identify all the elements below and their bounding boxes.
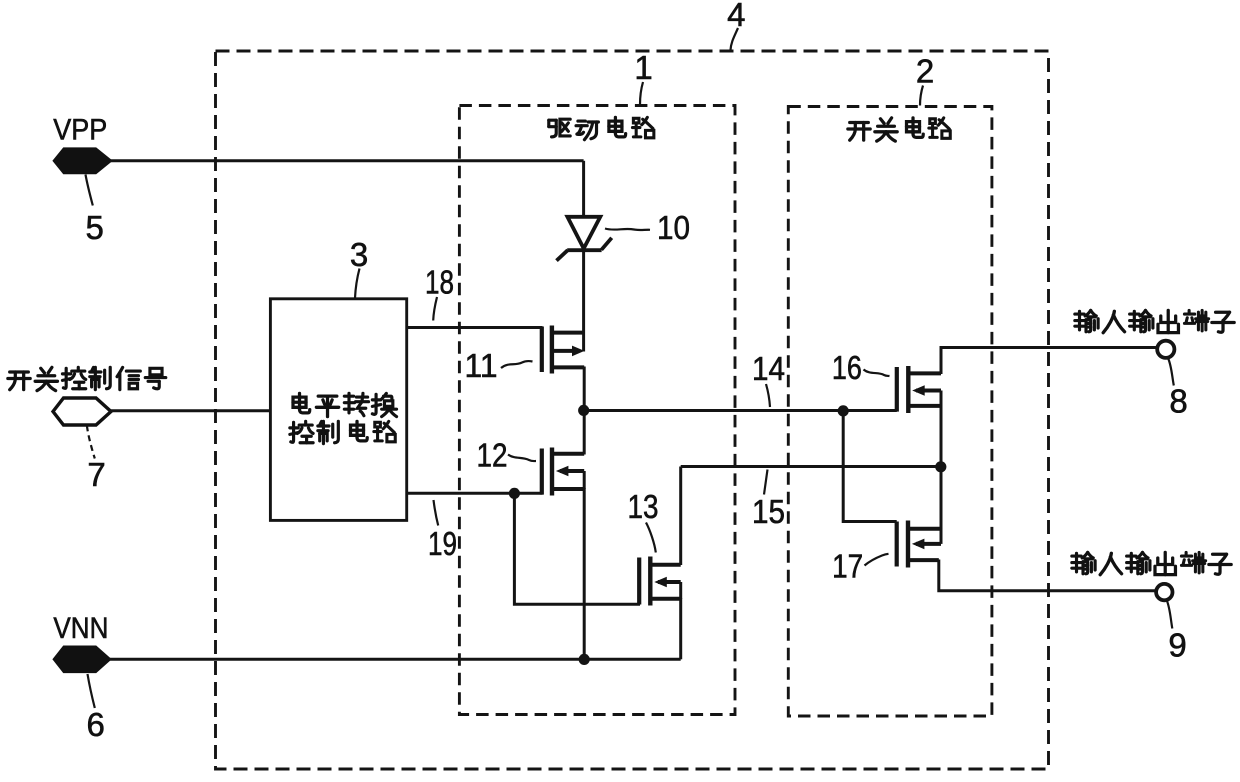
transistor Q13 [639,557,681,606]
transistor Q12 [542,448,584,496]
leader 16 [864,370,890,377]
svg-text:VNN: VNN [53,612,108,645]
box3 text line1: dian ping zhuan huan [293,393,397,416]
svg-text:10: 10 [657,209,690,246]
leader 4 [731,28,739,50]
leader 19 [434,500,439,526]
transistor Q16 [897,366,941,413]
leader 12 [508,455,536,462]
svg-text:7: 7 [87,456,105,493]
title block2: kai guan dian lu [848,118,950,141]
svg-text:19: 19 [428,525,457,562]
leader 15 [764,470,768,495]
box3 text line2: kong zhi dian lu [290,421,395,443]
svg-text:3: 3 [350,236,368,273]
svg-text:8: 8 [1169,383,1187,420]
label terminal 8: shu ru shu chu duan zi [1075,310,1234,332]
svg-text:2: 2 [916,52,934,89]
label terminal 9: shu ru shu chu duan zi [1072,552,1231,574]
wire T17 drain up to wire 15 [940,467,943,530]
box U3 level conversion control circuit [270,299,406,521]
leader 17 [865,554,889,566]
wire T16 source down to wire 15 [940,406,943,467]
terminal pad 7 control signal (open hexagon) [53,398,111,425]
node A junction dot [578,405,589,416]
leader 2 [920,86,923,106]
wire 14 branch down to T17 gate [843,411,897,522]
label VNN [53,612,108,645]
wire zener cathode down to T11 [582,250,585,352]
terminal pad VPP (filled hexagon) [53,148,112,174]
svg-text:17: 17 [832,548,863,585]
svg-text:1: 1 [634,49,652,86]
svg-text:15: 15 [752,493,785,530]
wire VPP rail [110,159,584,162]
svg-text:14: 14 [752,350,785,387]
zener diode D10 [557,217,612,261]
wire T11 source to node A [583,367,586,411]
junction dot VNN [579,654,590,665]
leader 13 [646,523,656,553]
wire 15 T13 drain to T16/T17 [681,465,941,468]
wire control signal to box 3 [109,409,270,412]
wire T12 source to VNN [583,488,586,659]
terminal 9 circle [1156,584,1172,600]
leader lines [86,28,1174,708]
transistor Q11 [542,326,585,374]
svg-text:18: 18 [425,263,454,300]
leader 8 [1168,359,1174,386]
svg-text:12: 12 [477,437,508,474]
svg-text:VPP: VPP [53,113,107,146]
wire T13 drain riser [679,467,682,566]
terminal pad VNN (filled hexagon) [53,646,111,673]
wire 14 node A to T16 gate [584,409,897,412]
wire 19 box3 to T12 gate [407,492,543,495]
junction dot wire 15 [935,461,946,472]
wire T12 drain to node A [583,411,586,455]
wire T13 source to VNN [679,598,682,659]
svg-text:5: 5 [86,209,104,246]
terminal 8 circle [1157,341,1174,358]
junction dot wire 14 [838,405,849,416]
junction dot wire 19 [509,488,520,499]
svg-text:11: 11 [465,347,498,384]
wire VPP drop to zener [582,161,585,217]
leader 6 [88,674,95,708]
block 1 dashed box (drive circuit) [459,106,735,715]
block 2 dashed box (switch circuit) [788,107,992,717]
wire 19 branch down [514,493,640,604]
transistor Q17 [897,521,941,568]
leader 9 [1167,601,1173,629]
svg-text:4: 4 [727,0,745,33]
leader 10 [605,229,650,231]
wire 18 box3 to T11 gate [407,326,543,329]
wire T16 drain to terminal 8 [941,348,1158,375]
wire T17 source to terminal 9 [939,560,1157,591]
leader 14 [766,384,770,407]
svg-text:13: 13 [628,488,659,525]
leader 7 [87,426,95,459]
svg-text:16: 16 [832,349,862,386]
label VPP [53,113,107,146]
leader 5 [86,175,93,206]
leader 18 [433,297,437,321]
svg-text:9: 9 [1168,627,1186,664]
label: kai guan kong zhi xin hao (switch control signal) [8,367,166,390]
leader 3 [355,269,360,299]
block 4 outer dashed box [216,51,1049,769]
leader 11 [501,361,533,368]
title block1: qu dong dian lu [549,117,654,139]
leader 1 [640,82,643,105]
wire VNN rail [109,658,681,661]
svg-text:6: 6 [87,706,105,743]
